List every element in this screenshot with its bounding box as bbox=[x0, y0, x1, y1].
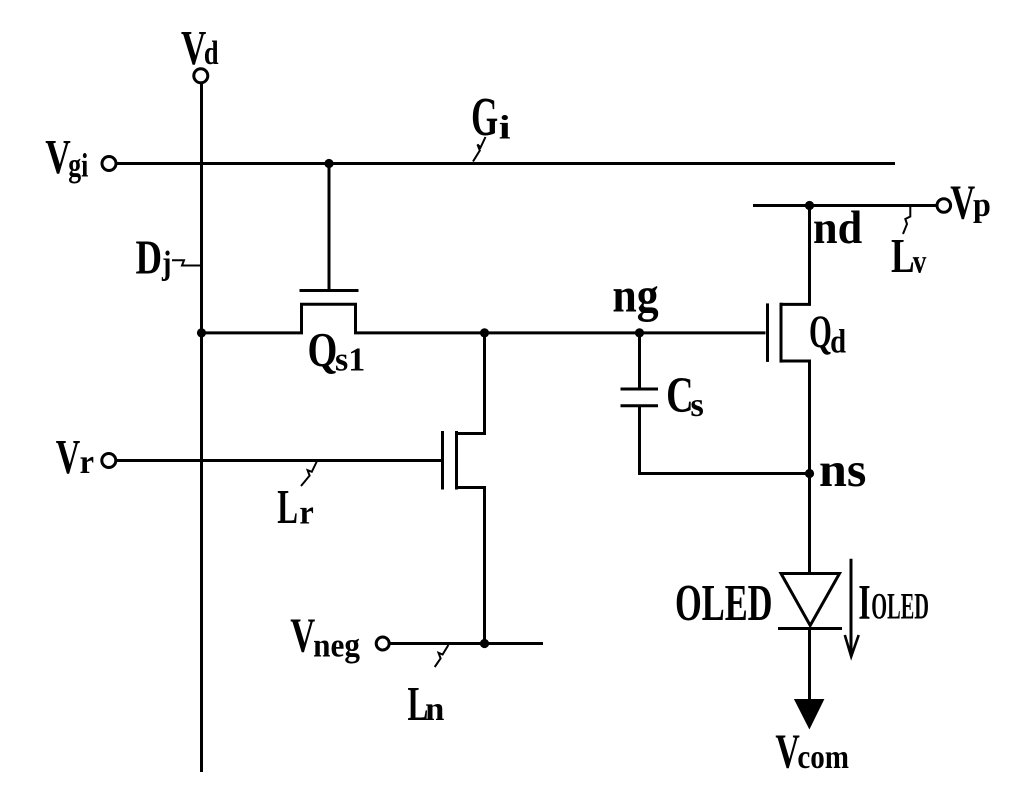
svg-text:L: L bbox=[277, 479, 298, 534]
svg-text:d: d bbox=[830, 322, 846, 360]
svg-text:d: d bbox=[204, 34, 219, 72]
svg-text:com: com bbox=[797, 738, 849, 776]
svg-text:n: n bbox=[425, 690, 444, 728]
svg-text:nd: nd bbox=[813, 201, 862, 254]
svg-text:neg: neg bbox=[313, 627, 361, 664]
svg-text:Q: Q bbox=[307, 323, 337, 378]
svg-text:Q: Q bbox=[809, 306, 832, 358]
svg-text:OLED: OLED bbox=[675, 574, 773, 632]
svg-text:V: V bbox=[775, 724, 799, 779]
svg-text:p: p bbox=[973, 187, 991, 224]
svg-text:ns: ns bbox=[819, 442, 866, 496]
svg-text:gi: gi bbox=[68, 146, 88, 184]
svg-text:V: V bbox=[45, 131, 71, 185]
svg-text:r: r bbox=[80, 444, 95, 482]
svg-text:s: s bbox=[690, 386, 703, 424]
svg-text:G: G bbox=[471, 86, 498, 147]
svg-text:V: V bbox=[56, 430, 80, 485]
svg-text:i: i bbox=[499, 109, 511, 146]
svg-text:v: v bbox=[913, 243, 927, 281]
svg-text:s1: s1 bbox=[335, 342, 365, 379]
svg-text:L: L bbox=[891, 230, 915, 284]
svg-text:V: V bbox=[181, 21, 206, 75]
svg-text:ng: ng bbox=[612, 269, 658, 323]
svg-text:r: r bbox=[299, 494, 314, 532]
svg-text:V: V bbox=[950, 176, 975, 230]
svg-text:I: I bbox=[858, 575, 870, 630]
svg-text:D: D bbox=[135, 230, 162, 284]
svg-text:j: j bbox=[161, 243, 171, 281]
svg-text:V: V bbox=[290, 609, 315, 663]
svg-text:OLED: OLED bbox=[871, 586, 929, 627]
